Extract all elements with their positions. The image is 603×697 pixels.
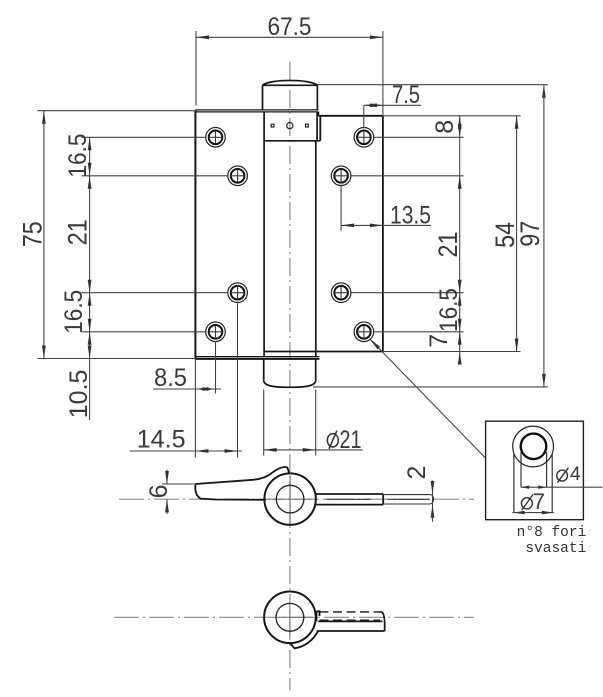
svg-text:67.5: 67.5	[268, 13, 312, 41]
closed view horizontal centerline	[114, 616, 474, 618]
svg-text:7: 7	[425, 334, 453, 348]
dimension 67.5	[196, 31, 383, 116]
dimension diameter 4	[521, 486, 603, 488]
open view pin inner circle	[276, 485, 304, 513]
screw hole R2	[331, 166, 351, 186]
dimension 14.5	[130, 302, 243, 458]
svg-text:6: 6	[145, 484, 173, 498]
svg-text:2: 2	[403, 466, 431, 480]
closed view folded bar	[317, 611, 385, 631]
open view barrel outer circle	[264, 473, 315, 524]
leader to detail	[370, 339, 486, 458]
svg-text:14.5: 14.5	[137, 425, 186, 453]
dimension 7 right	[458, 332, 462, 365]
svg-text:16.5: 16.5	[64, 134, 92, 178]
dimension 8.5	[153, 341, 221, 394]
svg-text:21: 21	[433, 232, 463, 258]
dimension 75	[38, 111, 196, 359]
dimension 21 left	[88, 176, 92, 293]
dimension 54	[383, 116, 521, 352]
closed view wrap leaf arc	[290, 631, 318, 648]
svg-text:n°8 fori: n°8 fori	[517, 525, 587, 541]
svg-text:97: 97	[515, 221, 545, 247]
dimension 8	[374, 116, 521, 365]
svg-text:10.5: 10.5	[65, 370, 93, 419]
open view crosshair	[268, 475, 313, 524]
open view right leaf thin extension	[383, 495, 433, 504]
svg-text:8: 8	[431, 120, 459, 134]
barrel body edges	[264, 141, 316, 357]
closed view crosshair	[278, 610, 312, 636]
dimension 16.5 left upper	[82, 137, 228, 420]
svg-text:svasati: svasati	[525, 541, 586, 557]
closed view hidden leaf dashed lines	[320, 612, 382, 620]
svg-text:13.5: 13.5	[390, 201, 431, 229]
screw hole L4	[206, 322, 226, 342]
dimension 13.5	[341, 185, 431, 231]
dimension 2	[432, 481, 434, 522]
spring adjustment collar	[264, 112, 321, 141]
screw hole L1	[206, 128, 226, 148]
closed view barrel outer circle	[264, 592, 316, 644]
svg-text:8.5: 8.5	[154, 364, 187, 392]
detail box	[486, 421, 584, 520]
dimension 16.5 right	[374, 331, 464, 333]
dimension 97	[313, 85, 548, 387]
svg-text:16.5: 16.5	[60, 290, 88, 334]
detail countersink side lines	[514, 454, 552, 513]
left leaf plate outline	[195, 110, 319, 359]
centerline vertical main axis	[289, 62, 291, 690]
detail hole side lines	[521, 452, 547, 487]
svg-text:4: 4	[570, 464, 581, 485]
open view right leaf slot line	[325, 498, 370, 500]
dimension 7.5	[364, 105, 421, 128]
svg-text:21: 21	[63, 219, 93, 245]
open view horizontal centerline	[119, 498, 474, 500]
screw hole R4	[354, 322, 374, 342]
barrel bottom cap	[264, 359, 316, 387]
screw hole L2	[228, 166, 248, 186]
barrel top cap	[263, 80, 318, 109]
svg-text:7.5: 7.5	[392, 81, 420, 109]
screw hole R1	[354, 128, 374, 148]
closed view pin inner circle	[276, 603, 304, 631]
screw hole R3	[331, 283, 351, 303]
dimension 21 right	[351, 176, 464, 293]
dimension diameter 21	[264, 390, 363, 456]
svg-text:7: 7	[533, 489, 545, 514]
svg-text:75: 75	[18, 221, 48, 247]
svg-text:16.5: 16.5	[435, 288, 463, 332]
dimension 6	[162, 470, 196, 514]
collar adjustment holes	[271, 123, 308, 129]
dimension diameter 7	[512, 512, 554, 514]
svg-text:21: 21	[340, 426, 362, 454]
detail hole inner circle	[521, 434, 547, 460]
open view left leaf	[195, 467, 289, 500]
open view right leaf bar	[316, 494, 384, 505]
detail countersink outer circle	[513, 426, 554, 467]
dimension 10.5	[88, 332, 92, 359]
screw hole L3	[228, 283, 248, 303]
dimension 16.5 left lower	[82, 293, 228, 332]
right leaf plate outline	[264, 112, 383, 352]
